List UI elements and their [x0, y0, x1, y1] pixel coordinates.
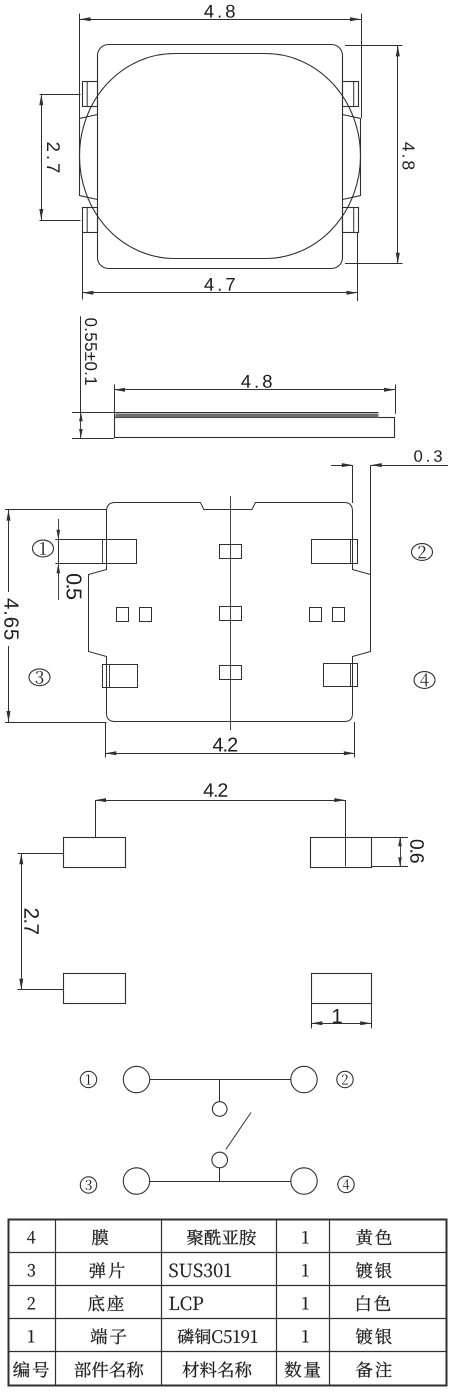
schematic: circled terminal number 3 — [80, 1177, 96, 1193]
dimension 0.55±0.1: label — [85, 318, 97, 385]
dimension 4.8 side: dimension line — [114, 389, 395, 391]
dimension 4.8 right: label — [402, 142, 414, 169]
bottom view: terminal pad 3 (bottom-left) — [103, 665, 138, 688]
bottom view: circled terminal number 2 — [412, 544, 433, 561]
dimension 0.55±0.1: dimension line — [80, 316, 82, 412]
dimension 2.7 land pattern: dimension line — [21, 853, 23, 989]
schematic: terminal circle 1 — [123, 1066, 149, 1092]
schematic: switch actuator arm — [226, 1113, 251, 1150]
parts table row 1: 4 | 膜 | 聚酰亚胺 | 1 | 黄色 — [27, 1231, 35, 1244]
dimension 4.7 bottom: label — [204, 278, 234, 291]
bottom view: circled terminal number 1 — [33, 540, 54, 557]
dimension 4.65: label — [4, 599, 19, 640]
dimension 4.8 side: label — [241, 375, 272, 388]
dimension 4.8 top: dimension line — [80, 19, 362, 21]
schematic: wire bottom contact stub — [219, 1168, 221, 1181]
parts table: row lines — [8, 1252, 447, 1254]
dimension 0.3: extension lines — [352, 465, 354, 503]
bottom view: base outline with wings — [89, 503, 371, 722]
dimension 2.7 left: label — [47, 143, 60, 173]
schematic: circled terminal number 1 — [80, 1071, 96, 1087]
bottom view: center pad row 2 — [220, 607, 242, 621]
bottom view: center pad row 1 — [220, 545, 242, 559]
land pattern: pad bottom-right — [312, 974, 372, 1004]
dimension 0.5: dimension line and arrows — [58, 519, 60, 540]
schematic: circled terminal number 2 — [337, 1071, 353, 1087]
dimension 4.2 land pattern: dimension line — [95, 800, 345, 802]
top view: round dome (flattened ellipse) — [80, 54, 361, 259]
dimension 0.3: dimension line — [331, 465, 353, 467]
dimension 4.2 land pattern: label — [204, 783, 228, 797]
dimension 4.65: dimension line — [8, 510, 10, 592]
dimension 4.7 bottom: dimension line — [82, 292, 357, 294]
parts table row 4: 1 | 端子 | 磷铜C5191 | 1 | 镀银 — [28, 1330, 34, 1342]
dimension 4.2 bottom view: dimension line — [105, 753, 354, 755]
bottom view: center line — [230, 496, 232, 730]
side view: base body — [115, 418, 395, 438]
dimension 1: extension lines — [311, 1004, 313, 1029]
bottom view: terminal pad 1 (long weld tab, top-left) — [59, 540, 137, 564]
schematic: wire top contact stub — [219, 1080, 221, 1102]
top view: terminal tab top-left — [83, 82, 98, 107]
parts table: outer border — [9, 1220, 447, 1386]
dimension 4.8 right: extension lines — [345, 45, 403, 47]
schematic: terminal circle 3 — [123, 1168, 149, 1194]
parts table: column lines — [55, 1219, 57, 1385]
land pattern: pad top-right — [311, 838, 372, 868]
bottom view: circled terminal number 3 — [29, 669, 50, 686]
top view: right wing of cover — [343, 115, 361, 200]
side view: top film (yellow membrane edge-on) — [116, 414, 379, 418]
bottom view: terminal pad 2 (top-right) — [312, 540, 358, 564]
dimension 4.2 land pattern: extension lines — [95, 800, 97, 837]
top view: terminal tab bottom-right — [343, 208, 359, 233]
dimension 4.8 top: label — [204, 5, 235, 18]
dimension 2.7 left: extension lines — [40, 94, 81, 96]
schematic: circled terminal number 4 — [338, 1176, 354, 1192]
parts table row 2: 3 | 弹片 | SUS301 | 1 | 镀银 — [28, 1264, 35, 1277]
dimension 4.8 side: extension lines — [114, 385, 116, 418]
land pattern: pad top-left — [64, 838, 126, 868]
bottom view: terminal pad 4 (bottom-right) — [324, 664, 358, 687]
dimension 4.65: extension lines — [5, 509, 107, 511]
dimension 4.2 bottom view: extension lines — [105, 722, 107, 758]
dimension 0.3: label — [414, 450, 442, 462]
schematic: movable contact node — [212, 1152, 228, 1168]
dimension 0.5: label — [66, 574, 81, 599]
dimension 0.6: dimension line — [400, 837, 402, 866]
schematic: wire terminal3-terminal4 — [150, 1181, 291, 1183]
top view: switch cover outline — [98, 45, 343, 269]
dimension 0.6: extension lines — [372, 837, 409, 839]
parts table row 5 header: 编号 | 部件名称 | 材料名称 | 数量 | 备注 — [13, 1361, 49, 1377]
dimension 4.8 right: dimension line — [397, 45, 399, 263]
schematic: terminal circle 2 — [291, 1066, 317, 1092]
top view: left wing of cover — [80, 115, 98, 200]
bottom view: small square right B — [333, 608, 345, 622]
top view: terminal tab top-right — [343, 82, 359, 107]
bottom view: small square left A — [117, 608, 129, 622]
bottom view: small square right A — [310, 608, 322, 622]
schematic: terminal circle 4 — [291, 1168, 317, 1194]
dimension 4.2 bottom view: label — [213, 738, 237, 752]
dimension 1: dimension line — [311, 1023, 371, 1025]
dimension 0.6: label — [410, 840, 424, 863]
dimension 4.7 bottom: extension lines — [82, 232, 84, 299]
dimension 2.7 land pattern: extension lines — [18, 853, 64, 855]
schematic: fixed contact node — [212, 1102, 227, 1117]
schematic: wire terminal1-terminal2 — [150, 1079, 291, 1081]
top view: terminal tab bottom-left — [83, 208, 98, 233]
side view: top surface line to extension — [72, 412, 379, 414]
land pattern: pad bottom-left — [64, 974, 126, 1004]
parts table row 3: 2 | 底座 | LCP | 1 | 白色 — [28, 1297, 35, 1309]
dimension 2.7 land pattern: label — [24, 909, 39, 934]
dimension 2.7 left: dimension line — [41, 94, 43, 220]
bottom view: small square left B — [140, 608, 152, 622]
dimension 4.8 top: extension lines — [79, 14, 81, 119]
bottom view: circled terminal number 4 — [414, 672, 435, 689]
bottom view: center pad row 3 — [220, 666, 242, 680]
dimension 1: label — [333, 1009, 342, 1023]
